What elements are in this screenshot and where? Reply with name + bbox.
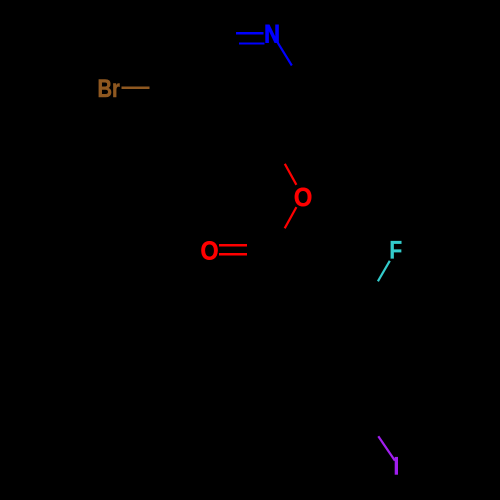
bond O ester-C carbonyl (O half) bbox=[285, 207, 297, 228]
svg-text:Br: Br bbox=[97, 75, 120, 102]
svg-text:F: F bbox=[389, 236, 402, 264]
bond C6=N1 inner line (N half) bbox=[239, 42, 264, 44]
bond C6=N1 outer line (N half) bbox=[236, 32, 263, 34]
bond C=O double bottom line (O half) bbox=[219, 253, 247, 256]
bond C4b-I (I half) bbox=[378, 436, 395, 460]
bond C2b-F (F half) bbox=[378, 261, 390, 282]
svg-text:O: O bbox=[200, 237, 218, 265]
atom I label bbox=[395, 457, 398, 475]
bond Br-C5 (Br half) bbox=[122, 86, 150, 88]
bond C3-O ester (O half) bbox=[285, 164, 297, 185]
bond N1-C2 (N half) bbox=[278, 42, 292, 65]
bond C=O double top line (O half) bbox=[219, 244, 247, 246]
